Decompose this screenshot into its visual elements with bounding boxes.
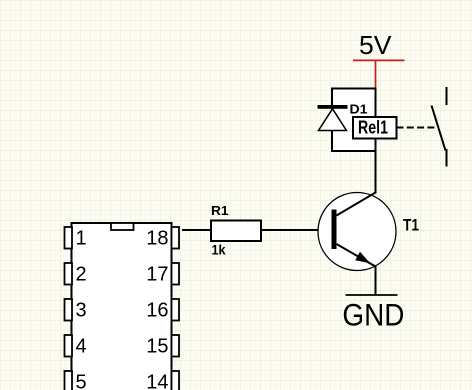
svg-text:GND: GND bbox=[342, 297, 404, 333]
svg-text:4: 4 bbox=[76, 336, 87, 358]
svg-text:1: 1 bbox=[76, 228, 87, 250]
svg-text:5V: 5V bbox=[359, 30, 392, 60]
svg-text:Rel1: Rel1 bbox=[358, 118, 388, 138]
svg-text:3: 3 bbox=[76, 300, 87, 322]
svg-text:15: 15 bbox=[146, 336, 168, 358]
svg-text:T1: T1 bbox=[403, 215, 419, 234]
svg-text:18: 18 bbox=[146, 228, 168, 250]
svg-text:2: 2 bbox=[76, 264, 87, 286]
svg-text:R1: R1 bbox=[211, 203, 229, 218]
svg-text:16: 16 bbox=[146, 300, 168, 322]
svg-text:5: 5 bbox=[76, 372, 87, 390]
svg-text:D1: D1 bbox=[350, 102, 368, 117]
svg-text:1k: 1k bbox=[212, 242, 226, 258]
svg-text:17: 17 bbox=[146, 264, 168, 286]
svg-text:14: 14 bbox=[146, 372, 168, 390]
